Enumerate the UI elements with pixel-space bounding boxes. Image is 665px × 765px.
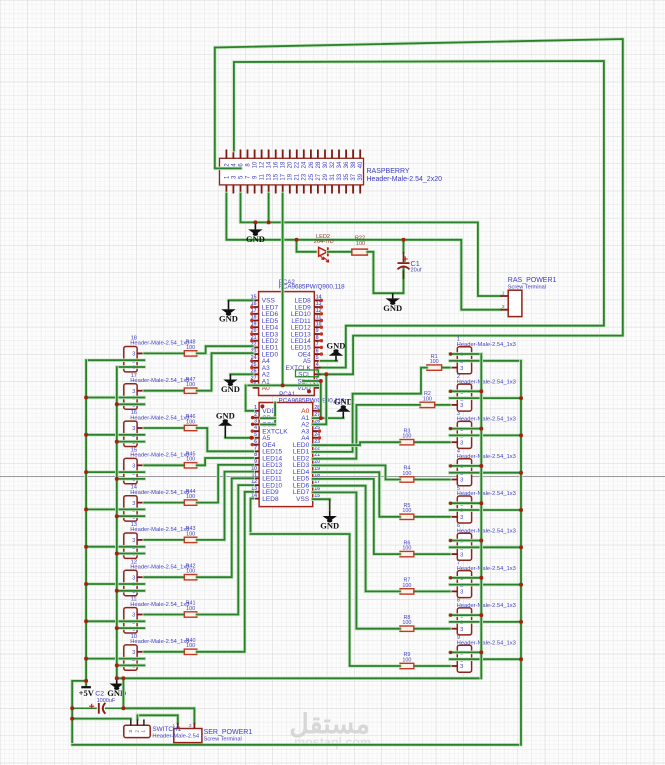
capacitor C1 pin segments bbox=[403, 252, 405, 279]
no-connect pin bbox=[250, 326, 253, 329]
svg-text:3: 3 bbox=[128, 730, 133, 733]
wire header4 pin3 to resistor bbox=[414, 478, 450, 482]
wire outer loop bbox=[215, 39, 623, 374]
wire header2 pin3 to resistor bbox=[435, 403, 450, 407]
connector RASPBERRY Header-Male-2.54_2x20 bbox=[220, 150, 443, 194]
connector header 2 Header-Male-2.54_1x3 (right column) bbox=[450, 374, 516, 411]
svg-text:19: 19 bbox=[288, 173, 294, 180]
svg-text:20uf: 20uf bbox=[411, 268, 422, 274]
svg-text:100: 100 bbox=[186, 606, 195, 612]
svg-text:3: 3 bbox=[132, 501, 135, 507]
junction bbox=[84, 582, 88, 586]
wire header9 pin2 to +5V bus bbox=[450, 657, 521, 661]
resistor R46 bbox=[184, 414, 197, 430]
svg-text:16: 16 bbox=[274, 161, 280, 168]
svg-text:264-7ID: 264-7ID bbox=[314, 239, 334, 245]
screw terminal RAS_POWER1 bbox=[501, 277, 557, 317]
ground at PCA2 A2 bbox=[221, 374, 240, 394]
connector header 17 Header-Male-2.54_1x3 (left column) bbox=[124, 373, 190, 409]
svg-text:Header-Male-2.54_2x20: Header-Male-2.54_2x20 bbox=[367, 176, 443, 183]
connector header 11 Header-Male-2.54_1x3 (left column) bbox=[124, 597, 190, 633]
junction bbox=[121, 676, 125, 680]
svg-text:37: 37 bbox=[351, 173, 357, 180]
svg-text:4: 4 bbox=[316, 362, 319, 368]
wire header12 pin1 to GND bus bbox=[117, 589, 145, 593]
no-connect pin bbox=[251, 429, 254, 432]
no-connect pin bbox=[250, 332, 253, 335]
wire PCA2 A0 to PCA1 VDD bbox=[246, 385, 254, 410]
wire PCA1 A1 row to ground bbox=[313, 416, 344, 420]
svg-text:GND: GND bbox=[246, 234, 265, 244]
wire header9 pin1 to GND bus bbox=[450, 651, 482, 655]
wire R41 to PCA1 LED10 bbox=[197, 485, 253, 614]
svg-text:38: 38 bbox=[351, 161, 357, 168]
resistor R2 bbox=[420, 391, 435, 408]
junction bbox=[519, 471, 523, 475]
wire R5 to PCA1 LED4 bbox=[313, 472, 400, 517]
resistor R41 bbox=[184, 601, 197, 618]
svg-text:3: 3 bbox=[254, 419, 257, 425]
wire header1 pin3 to resistor bbox=[442, 366, 450, 370]
junction bbox=[70, 717, 74, 721]
svg-text:39: 39 bbox=[358, 173, 364, 180]
pin connection dot bbox=[449, 502, 452, 505]
wire header9 pin3 to resistor bbox=[414, 664, 450, 668]
svg-text:3: 3 bbox=[132, 538, 135, 544]
wire header14 pin1 to GND bus bbox=[117, 514, 145, 518]
svg-text:mostaql.com: mostaql.com bbox=[294, 736, 371, 750]
wire switch pin2 stub up bbox=[136, 715, 140, 719]
connector header 15 Header-Male-2.54_1x3 (left column) bbox=[124, 447, 190, 483]
junction bbox=[250, 436, 254, 440]
wire header14 pin3 to resistor bbox=[144, 501, 184, 505]
wire raspberry pin17 to PCA2 VDD bbox=[281, 194, 285, 386]
junction bbox=[115, 626, 119, 630]
junction bbox=[295, 238, 299, 242]
screw terminal SER_POWER1 bbox=[172, 723, 252, 743]
svg-text:Header-Male-2.54_1x3: Header-Male-2.54_1x3 bbox=[130, 527, 189, 533]
wire header4 pin2 to +5V bus bbox=[450, 471, 521, 475]
svg-text:1: 1 bbox=[141, 730, 146, 733]
no-connect pin bbox=[317, 409, 320, 412]
svg-text:3: 3 bbox=[132, 464, 135, 470]
svg-text:24: 24 bbox=[302, 161, 308, 168]
wire header10 pin2 to +5V bus bbox=[86, 657, 144, 661]
svg-text:3: 3 bbox=[460, 515, 463, 521]
svg-text:3: 3 bbox=[132, 575, 135, 581]
wire PCA1 A5 to GND bbox=[225, 436, 253, 440]
wire R7 to PCA1 LED6 bbox=[313, 486, 400, 592]
wire R2 to PCA1 LED2 bbox=[313, 405, 420, 459]
svg-text:100: 100 bbox=[402, 471, 411, 477]
svg-text:5: 5 bbox=[316, 355, 319, 361]
ground at PCA2 VSS bbox=[219, 300, 238, 323]
wire header11 pin3 to resistor bbox=[144, 613, 184, 617]
no-connect pin bbox=[250, 379, 253, 382]
svg-text:Header-Male-2.54: Header-Male-2.54 bbox=[152, 733, 199, 739]
svg-text:31: 31 bbox=[330, 173, 336, 180]
connector header 3 Header-Male-2.54_1x3 (right column) bbox=[450, 411, 516, 448]
wire R1 to PCA1 LED1 bbox=[313, 368, 427, 452]
wire R3 to PCA1 LED0 bbox=[313, 442, 400, 445]
connector header 4 Header-Male-2.54_1x3 (right column) bbox=[450, 449, 516, 486]
wire header13 pin3 to resistor bbox=[144, 538, 184, 542]
wire header18 pin2 to +5V bus bbox=[86, 358, 144, 362]
svg-text:17: 17 bbox=[281, 173, 287, 180]
connector header 8 Header-Male-2.54_1x3 (right column) bbox=[450, 598, 516, 635]
wire R22 to GND rail and C1 bbox=[367, 252, 403, 293]
wire header7 pin1 to GND bus bbox=[450, 576, 482, 580]
junction bbox=[519, 433, 523, 437]
svg-text:GND: GND bbox=[334, 396, 353, 406]
svg-text:11: 11 bbox=[260, 174, 266, 181]
wire R9 under PCA1 to LED8 bbox=[251, 534, 401, 666]
junction bbox=[319, 379, 323, 383]
svg-text:2: 2 bbox=[189, 723, 192, 728]
svg-text:2: 2 bbox=[254, 412, 257, 418]
wire C2 to SER_POWER1 pin2 bbox=[123, 708, 194, 722]
svg-text:3: 3 bbox=[460, 403, 463, 409]
wire header10 pin3 to resistor bbox=[144, 650, 184, 654]
junction bbox=[115, 589, 119, 593]
wire header8 pin2 to +5V bus bbox=[450, 620, 521, 624]
capacitor C1 20uf bbox=[398, 256, 422, 273]
wire GND bus vertical bbox=[115, 367, 119, 678]
no-connect pin bbox=[320, 339, 323, 342]
wire header3 pin2 to +5V bus bbox=[450, 434, 521, 438]
wire to LED2 anode bbox=[297, 240, 316, 252]
connector header 9 Header-Male-2.54_1x3 (right column) bbox=[450, 635, 516, 672]
svg-text:100: 100 bbox=[356, 241, 365, 247]
wire header13 pin1 to GND bus bbox=[117, 552, 145, 556]
connector header 1 Header-Male-2.54_1x3 (right column) bbox=[450, 337, 516, 374]
svg-text:2: 2 bbox=[134, 730, 139, 733]
pin connection dot bbox=[449, 539, 452, 542]
junction bbox=[519, 583, 523, 587]
pin connection dot bbox=[449, 576, 452, 579]
pin connection dot bbox=[449, 427, 452, 430]
svg-text:3: 3 bbox=[460, 590, 463, 596]
svg-text:Screw Terminal: Screw Terminal bbox=[508, 284, 546, 290]
no-connect pin bbox=[251, 443, 254, 446]
no-connect pin bbox=[318, 436, 321, 439]
resistor R42 bbox=[184, 563, 197, 580]
no-connect pin bbox=[250, 305, 253, 308]
wire raspberry pin1 to RAS_POWER1 pin2 bbox=[226, 194, 500, 310]
wire GND rail bottom bbox=[117, 677, 482, 681]
connector header 6 Header-Male-2.54_1x3 (right column) bbox=[450, 523, 516, 560]
wire header10 pin1 to GND bus bbox=[117, 664, 145, 668]
svg-text:3: 3 bbox=[132, 426, 135, 432]
svg-text:GND: GND bbox=[327, 340, 346, 350]
wire header14 pin2 to +5V bus bbox=[86, 508, 144, 512]
svg-text:100: 100 bbox=[402, 583, 411, 589]
no-connect pin bbox=[320, 332, 323, 335]
wire switch pin2 to SER_POWER1 pin1 bbox=[137, 715, 177, 722]
svg-text:3: 3 bbox=[132, 352, 135, 358]
wire header8 pin3 to resistor bbox=[414, 627, 450, 631]
wire header11 pin2 to +5V bus bbox=[86, 620, 144, 624]
wire C1 top bbox=[402, 240, 406, 252]
no-connect pin bbox=[320, 346, 323, 349]
wire header17 pin2 to +5V bus bbox=[86, 396, 144, 400]
no-connect pin bbox=[318, 429, 321, 432]
wire header12 pin3 to resistor bbox=[144, 575, 184, 579]
svg-text:100: 100 bbox=[186, 531, 195, 537]
svg-text:3: 3 bbox=[460, 366, 463, 372]
resistor R40 bbox=[184, 638, 197, 655]
svg-text:3: 3 bbox=[460, 664, 463, 670]
svg-text:26: 26 bbox=[309, 161, 315, 168]
svg-text:100: 100 bbox=[402, 546, 411, 552]
svg-text:SWITCH1: SWITCH1 bbox=[152, 726, 181, 733]
junction bbox=[519, 620, 523, 624]
junction bbox=[84, 545, 88, 549]
junction bbox=[84, 396, 88, 400]
connector header 16 Header-Male-2.54_1x3 (left column) bbox=[124, 410, 190, 446]
svg-text:35: 35 bbox=[344, 173, 350, 180]
wire PCA1 LED8 down to R9 run bbox=[251, 499, 254, 535]
svg-text:100: 100 bbox=[186, 569, 195, 575]
svg-text:15: 15 bbox=[274, 173, 280, 180]
wire header12 pin2 to +5V bus bbox=[86, 582, 144, 586]
wire header1 pin1 to GND bus bbox=[450, 352, 482, 356]
watermark bbox=[289, 709, 371, 750]
svg-text:28: 28 bbox=[316, 161, 322, 168]
resistor R7 bbox=[400, 578, 414, 595]
resistor R6 bbox=[400, 540, 414, 557]
IC pin1 marker PCA2 bbox=[307, 389, 311, 393]
wire PCA2 SDA down bbox=[303, 381, 321, 418]
svg-text:RASPBERRY: RASPBERRY bbox=[367, 168, 410, 175]
wire R47 to PCA2 LED0 bbox=[197, 353, 253, 391]
junction bbox=[402, 238, 406, 242]
wire PCA2 A5 to GND bbox=[321, 359, 337, 363]
wire header5 pin1 to GND bus bbox=[450, 501, 482, 505]
wire raspberry pin5 to RAS_POWER1 pin1 bbox=[241, 194, 501, 297]
svg-text:4: 4 bbox=[254, 425, 257, 431]
resistor R43 bbox=[184, 526, 197, 543]
svg-text:7: 7 bbox=[316, 342, 319, 348]
ground at PCA1 A1 bbox=[334, 396, 353, 418]
ground at PCA1 A5 bbox=[216, 410, 235, 437]
junction bbox=[319, 416, 323, 420]
connector header 13 Header-Male-2.54_1x3 (left column) bbox=[124, 522, 190, 558]
svg-text:22: 22 bbox=[295, 161, 301, 168]
IC U PCA1 PCA9685PW/Q900,118 bbox=[251, 391, 345, 506]
svg-text:VSS: VSS bbox=[296, 496, 310, 503]
svg-text:100: 100 bbox=[402, 620, 411, 626]
junction bbox=[84, 507, 88, 511]
svg-text:100: 100 bbox=[402, 508, 411, 514]
svg-text:14: 14 bbox=[267, 161, 273, 168]
svg-text:3: 3 bbox=[460, 440, 463, 446]
sheet boundary line bbox=[0, 476, 665, 478]
wire +5V bus vertical bbox=[84, 360, 88, 687]
junction bbox=[84, 679, 88, 683]
svg-text:Header-Male-2.54_1x3: Header-Male-2.54_1x3 bbox=[130, 565, 189, 571]
svg-text:Header-Male-2.54_1x3: Header-Male-2.54_1x3 bbox=[130, 602, 189, 608]
svg-text:8: 8 bbox=[316, 335, 319, 341]
ground below PCA1 bbox=[320, 511, 339, 531]
svg-text:32: 32 bbox=[330, 161, 336, 168]
svg-text:Screw Terminal: Screw Terminal bbox=[204, 737, 242, 743]
IC U PCA2 PCA9685PW/Q900,118 bbox=[251, 279, 345, 396]
no-connect pin bbox=[320, 319, 323, 322]
resistor R8 bbox=[400, 615, 414, 632]
pin connection dot bbox=[449, 464, 452, 467]
wire header15 pin2 to +5V bus bbox=[86, 470, 144, 474]
junction bbox=[479, 613, 483, 617]
wire GND to C2 bbox=[122, 678, 126, 708]
wire PCA2 VSS to GND bbox=[229, 299, 253, 303]
wire header11 pin1 to GND bus bbox=[117, 626, 145, 630]
wire header2 pin1 to GND bus bbox=[450, 390, 482, 394]
no-connect pin bbox=[250, 366, 253, 369]
pin connection dot bbox=[449, 390, 452, 393]
wire header18 pin1 to GND bus bbox=[117, 365, 145, 369]
ground at bottom rail bbox=[107, 678, 126, 698]
pin connection dot bbox=[251, 416, 254, 419]
wire +5V rail to switch pin1 bbox=[72, 717, 131, 721]
junction bbox=[121, 706, 125, 710]
svg-text:10: 10 bbox=[253, 161, 259, 168]
ground below raspberry bbox=[246, 222, 265, 243]
connector header 7 Header-Male-2.54_1x3 (right column) bbox=[450, 560, 516, 597]
junction bbox=[253, 220, 257, 224]
net highlight box SCL bbox=[296, 370, 319, 377]
junction bbox=[519, 396, 523, 400]
wire right GND bus bbox=[480, 354, 484, 678]
wire header1 pin2 to +5V bus bbox=[450, 359, 521, 363]
wire LED2 to R22 bbox=[328, 250, 352, 254]
ground at PCA2 A5 bbox=[327, 340, 346, 361]
junction bbox=[479, 650, 483, 654]
junction bbox=[479, 501, 483, 505]
svg-text:33: 33 bbox=[337, 173, 343, 180]
no-connect pin bbox=[320, 312, 323, 315]
wire R8 to PCA1 LED7 bbox=[313, 492, 400, 628]
wire PCA2 VDD row bbox=[246, 384, 321, 388]
no-connect pin bbox=[320, 305, 323, 308]
svg-text:30: 30 bbox=[323, 161, 329, 168]
connector header 10 Header-Male-2.54_1x3 (left column) bbox=[124, 634, 190, 670]
svg-text:Header-Male-2.54_1x3: Header-Male-2.54_1x3 bbox=[130, 415, 189, 421]
junction bbox=[115, 440, 119, 444]
svg-text:SER_POWER1: SER_POWER1 bbox=[204, 729, 253, 736]
wire header8 pin1 to GND bus bbox=[450, 613, 482, 617]
wire header5 pin3 to resistor bbox=[414, 515, 450, 519]
svg-text:3: 3 bbox=[460, 478, 463, 484]
svg-text:25: 25 bbox=[309, 173, 315, 180]
svg-text:34: 34 bbox=[337, 161, 343, 168]
junction bbox=[324, 372, 328, 376]
svg-text:C2: C2 bbox=[95, 691, 104, 698]
wire PCA2 SCL to PCA1 A2 bbox=[313, 374, 327, 424]
junction bbox=[519, 508, 523, 512]
svg-text:LED8: LED8 bbox=[262, 496, 279, 503]
power +5V bbox=[79, 687, 95, 698]
capacitor C2 1000uF bbox=[72, 691, 123, 714]
wire VSS drop (dark) bbox=[329, 499, 331, 511]
resistor R47 bbox=[184, 377, 197, 394]
svg-text:23: 23 bbox=[302, 173, 308, 180]
svg-text:PCA9685PW/Q900,118: PCA9685PW/Q900,118 bbox=[279, 284, 346, 291]
LED LED2 264-7ID bbox=[314, 234, 334, 262]
wire over PCA1 SDA bbox=[261, 416, 275, 420]
wire header16 pin2 to +5V bus bbox=[86, 433, 144, 437]
junction bbox=[479, 389, 483, 393]
junction bbox=[281, 383, 285, 387]
resistor R5 bbox=[400, 503, 414, 520]
svg-text:21: 21 bbox=[295, 173, 301, 180]
svg-text:Header-Male-2.54_1x3: Header-Male-2.54_1x3 bbox=[130, 639, 189, 645]
resistor R4 bbox=[400, 466, 414, 482]
junction bbox=[267, 220, 271, 224]
junction bbox=[70, 706, 74, 710]
wire header6 pin1 to GND bus bbox=[450, 539, 482, 543]
resistor R1 bbox=[427, 354, 442, 371]
wire R48 to PCA2 LED1 bbox=[197, 346, 253, 353]
wire header6 pin3 to resistor bbox=[414, 552, 450, 556]
resistor R44 bbox=[184, 489, 197, 506]
svg-text:100: 100 bbox=[423, 396, 432, 402]
switch SWITCH1 Header-Male-2.54 bbox=[124, 719, 200, 739]
svg-text:36: 36 bbox=[344, 161, 350, 168]
junction bbox=[84, 619, 88, 623]
wire header13 pin2 to +5V bus bbox=[86, 545, 144, 549]
pin connection dot bbox=[449, 613, 452, 616]
wire header15 pin1 to GND bus bbox=[117, 477, 145, 481]
junction bbox=[115, 514, 119, 518]
wire raspberry pin13 drop bbox=[267, 194, 271, 223]
svg-text:3: 3 bbox=[460, 552, 463, 558]
svg-text:100: 100 bbox=[186, 419, 195, 425]
resistor R45 bbox=[184, 452, 197, 469]
wire R45 to PCA1 LED14 bbox=[197, 458, 253, 465]
wire over PCA1 SCL bbox=[261, 423, 275, 427]
svg-text:1: 1 bbox=[502, 290, 505, 296]
wire header7 pin2 to +5V bus bbox=[450, 583, 521, 587]
junction bbox=[115, 477, 119, 481]
connector header 5 Header-Male-2.54_1x3 (right column) bbox=[450, 486, 516, 523]
svg-text:GND: GND bbox=[219, 314, 238, 324]
wire header2 pin2 to +5V bus bbox=[450, 396, 521, 400]
pin connection dot bbox=[449, 651, 452, 654]
wire header17 pin1 to GND bus bbox=[117, 403, 145, 407]
junction bbox=[479, 464, 483, 468]
svg-text:GND: GND bbox=[383, 303, 402, 313]
svg-text:100: 100 bbox=[186, 643, 195, 649]
junction bbox=[519, 657, 523, 661]
svg-text:2: 2 bbox=[502, 304, 505, 310]
no-connect pin bbox=[250, 312, 253, 315]
resistor R3 bbox=[400, 428, 414, 445]
connector header 18 Header-Male-2.54_1x3 (left column) bbox=[124, 336, 190, 372]
junction bbox=[479, 539, 483, 543]
svg-text:Header-Male-2.54_1x3: Header-Male-2.54_1x3 bbox=[130, 378, 189, 384]
svg-text:100: 100 bbox=[402, 434, 411, 440]
wire header4 pin1 to GND bus bbox=[450, 464, 482, 468]
wire PCA1 SDA/SCL inner vertical bbox=[273, 403, 277, 425]
junction bbox=[115, 402, 119, 406]
svg-text:9: 9 bbox=[316, 328, 319, 334]
wire +5V rail to bottom bbox=[72, 681, 86, 745]
svg-text:GND: GND bbox=[221, 384, 240, 394]
junction bbox=[115, 663, 119, 667]
wire header6 pin2 to +5V bus bbox=[450, 546, 521, 550]
svg-text:27: 27 bbox=[316, 173, 322, 180]
